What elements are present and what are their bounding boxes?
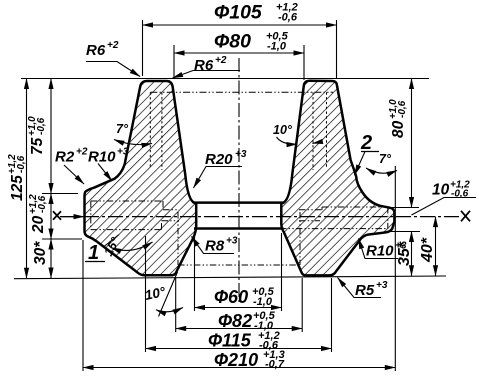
right angle construction line for 7 deg right (394, 166, 396, 230)
dimension 10 with leader (412, 198, 477, 216)
vertical axis center line (238, 58, 240, 302)
dimension 20: line with arrows (50, 194, 52, 240)
svg-text:+3: +3 (226, 236, 238, 247)
svg-text:R2: R2 (55, 149, 75, 166)
svg-text:+2: +2 (215, 55, 227, 66)
svg-text:10°: 10° (273, 123, 293, 137)
svg-text:-0,6: -0,6 (36, 117, 47, 135)
svg-text:7°: 7° (379, 152, 392, 166)
svg-text:-0,7: -0,7 (265, 359, 285, 371)
svg-text:125: 125 (9, 175, 26, 201)
dimension Ф82: extension lines (175, 278, 177, 332)
extension line at right tip bottom (387, 231, 420, 233)
svg-text:+3: +3 (117, 147, 129, 158)
dimension Ф80: line with arrows (174, 52, 304, 54)
svg-text:Ф105: Ф105 (214, 2, 263, 24)
svg-text:R20: R20 (205, 151, 233, 168)
angle 15 deg: label and arc (101, 234, 123, 258)
parting line left arrow (62, 216, 84, 218)
svg-text:-0,6: -0,6 (451, 189, 469, 200)
extension line at y=236 (42, 238, 82, 240)
dimension Ф105: extension lines (142, 20, 144, 76)
svg-text:Ф60: Ф60 (214, 287, 248, 307)
svg-text:+2: +2 (107, 40, 119, 51)
web bottom edge (194, 227, 284, 230)
svg-text:-0,6: -0,6 (278, 12, 298, 24)
svg-text:R6: R6 (194, 57, 214, 74)
svg-text:Ф115: Ф115 (208, 331, 252, 351)
svg-text:-0,6: -0,6 (397, 100, 408, 118)
X glyph left (53, 211, 61, 219)
svg-text:R5: R5 (355, 282, 375, 299)
svg-text:-0,6: -0,6 (37, 195, 48, 213)
svg-text:-0,6: -0,6 (16, 155, 27, 173)
dimension 30*: line with arrows (50, 239, 52, 278)
parting line X-X (60, 216, 459, 218)
finished-part contour: rib top line (150, 91, 333, 93)
svg-text:R6: R6 (86, 42, 106, 59)
svg-text:10: 10 (432, 182, 450, 199)
dimension 40*: line with arrows (435, 217, 437, 276)
svg-text:Ф82: Ф82 (218, 311, 252, 331)
svg-text:+3: +3 (235, 149, 247, 160)
svg-text:-1,0: -1,0 (253, 296, 273, 308)
svg-text:7°: 7° (116, 122, 129, 136)
dimension 125: line with arrows (26, 79, 28, 279)
svg-text:R10: R10 (366, 243, 394, 260)
finished-part contour: right rib edges (312, 92, 314, 170)
dimension Ф80: extension lines (173, 45, 175, 79)
dimension Ф60: extension lines (194, 233, 196, 311)
dimension Ф105: line with arrows (143, 24, 337, 26)
dimension 80 right: line with arrows (411, 79, 413, 208)
dimension 125: text (7, 154, 27, 201)
dimension 80 right: text (388, 99, 408, 138)
dimension Ф115: extension lines (145, 236, 147, 352)
svg-text:20: 20 (30, 215, 47, 234)
finished-part contour: left rib edges (149, 92, 151, 168)
svg-text:-1,0: -1,0 (267, 41, 287, 53)
dimension Ф60: line with arrows (195, 307, 282, 309)
svg-text:40*: 40* (419, 237, 436, 263)
svg-text:R10: R10 (88, 149, 116, 166)
svg-text:30*: 30* (32, 241, 49, 265)
dimension 75: text (27, 116, 47, 155)
svg-text:80: 80 (390, 120, 407, 138)
finished-part contour: hub bottom face (178, 264, 300, 266)
dimension Ф115: line with arrows (146, 348, 332, 350)
svg-text:Ф80: Ф80 (214, 31, 251, 53)
bottom-left extension line (14, 276, 446, 279)
forging cross-section left half (hatched) (85, 81, 197, 275)
svg-text:R8: R8 (205, 238, 225, 255)
dimension Ф210: extension lines (82, 240, 84, 371)
svg-text:+3: +3 (376, 280, 388, 291)
svg-text:Ф210: Ф210 (214, 350, 258, 370)
svg-text:35*: 35* (396, 241, 413, 266)
angle 10 deg bottom: label and arc (144, 284, 168, 303)
extension line at right tip top (391, 207, 419, 209)
finished-part contour: web lines (163, 209, 179, 211)
web top edge (194, 201, 284, 204)
angle 10 deg bottom: slope extension line (159, 272, 178, 317)
dimension 75: line with arrows (50, 79, 52, 194)
finished-part contour: right rim (280, 207, 388, 229)
dimension 30*: text (32, 241, 49, 265)
forging cross-section right half (hatched) (281, 81, 394, 276)
svg-text:2: 2 (360, 132, 372, 154)
extension line at y=193.5 (42, 193, 78, 195)
svg-text:1: 1 (88, 242, 99, 264)
finished-part contour: left rim rectangle (91, 201, 163, 230)
dimension Ф210: line with arrows (83, 367, 395, 369)
dimension 20: text (28, 194, 48, 234)
dimension 35*: line with arrows (411, 232, 413, 276)
dimension Ф82: line with arrows (176, 328, 303, 330)
svg-text:+2: +2 (76, 147, 88, 158)
svg-text:75: 75 (29, 137, 46, 155)
horizontal extension line at tower tops (21, 78, 429, 80)
X glyph right (461, 211, 470, 222)
